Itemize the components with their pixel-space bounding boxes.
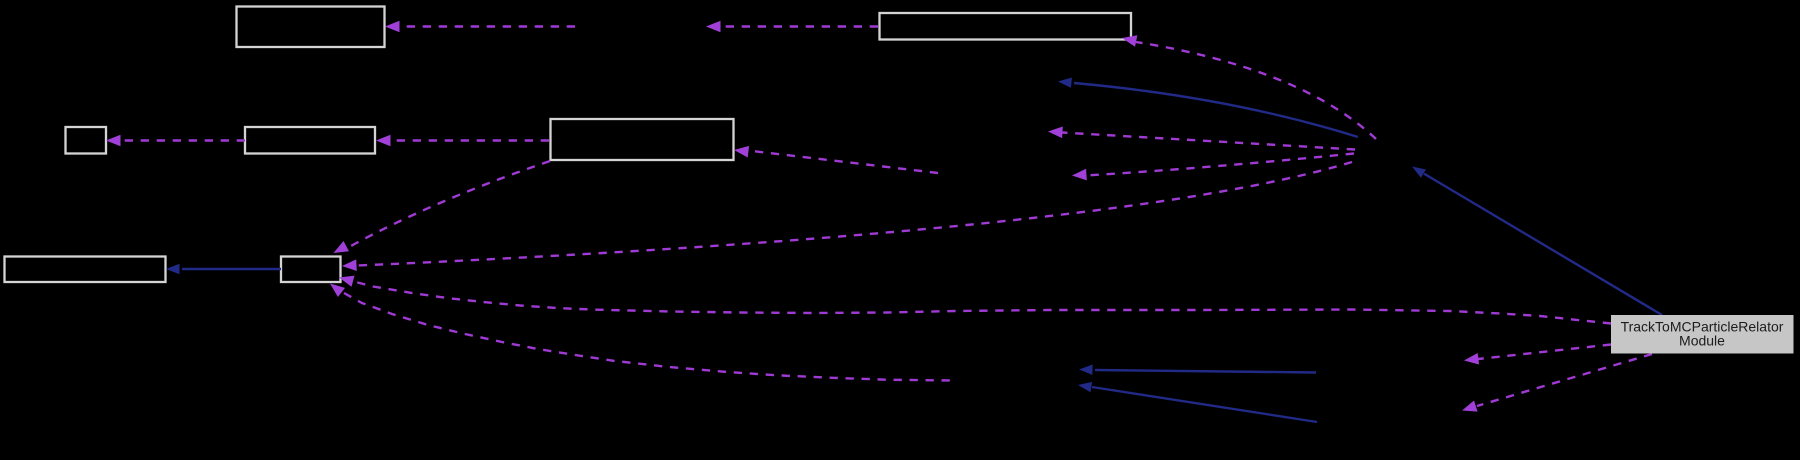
node box D (left, empty label) <box>245 127 375 154</box>
long dashed edge from hub to box G right edge <box>358 162 1352 266</box>
node box F (bottom-left wide, empty label) <box>5 257 166 283</box>
dashed edge from gray module box left edge to left arrowhead <box>1478 345 1611 360</box>
long dashed edge from gray module box to box G right edge <box>352 281 1611 324</box>
dashed edge from box E to box D <box>390 139 549 141</box>
dashed edge from box D to box C <box>120 139 245 141</box>
dashed edge segment into box E right edge <box>748 151 938 174</box>
dashed edge segment from box B toward left arrowhead <box>720 25 878 27</box>
dashed edge from box G bottom sweeping right (tail ends mid-air) <box>344 293 952 381</box>
dashed edge from hub into box B bottom-right corner <box>1136 42 1376 139</box>
node box A (top-left, empty label) <box>237 7 385 48</box>
blue solid edge ending mid-air to left arrowhead (lower) <box>1092 387 1317 422</box>
blue solid edge from gray module box top to arrowhead near hub <box>1424 174 1662 315</box>
dashed edge from hub to lower-left arrowhead <box>1086 154 1354 176</box>
blue solid edge from box G to box F <box>182 268 281 270</box>
dashed edge segment into box A (from invisible label) <box>399 25 575 27</box>
dashed edge from gray module box bottom to lower-left arrowhead <box>1477 354 1652 406</box>
dashed edge from box E bottom-left to box G top-right corner <box>349 161 550 247</box>
node box E (middle, empty label) <box>551 119 734 160</box>
svg-text:Module: Module <box>1679 332 1725 348</box>
node box B (top-middle, empty label) <box>880 13 1132 40</box>
node box C (small left, empty label) <box>66 127 107 154</box>
node box G (bottom hub, empty label) <box>281 257 341 283</box>
blue solid edge from hub to upper-left arrowhead <box>1074 83 1358 137</box>
highlighted node: TrackToMCParticleRelator Module <box>1611 315 1794 354</box>
blue solid edge ending mid-air to left arrowhead (upper) <box>1095 370 1316 373</box>
dashed edge from hub to middle-left arrowhead <box>1062 133 1355 150</box>
